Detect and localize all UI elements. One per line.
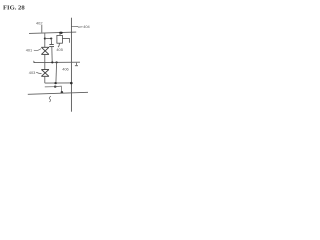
leader for label 401 [34,49,41,51]
resistor bottom lead [58,43,60,47]
protection element X2 (bidirectional diode) [41,70,49,77]
wire W1b to capacitor branch [45,38,51,40]
wire W3 short faint [45,86,55,88]
wire: middle branch from W2m down [55,62,58,83]
leader for label 402 [41,25,43,33]
resistor R (box) [57,35,63,43]
wire: left chain vertical from W1 to X1 [44,33,46,47]
wire W4 bottom horizontal crossing bus [28,92,88,94]
wire W2m middle horizontal [33,61,80,63]
wire W2 lower horizontal to bus [45,82,72,84]
squiggle leader below W4 [49,96,51,102]
bus vertical line right [70,18,72,112]
svg-text:406: 406 [62,67,68,72]
capacitor C bottom lead [51,47,53,63]
node dot F (55.2,86.6) [54,86,57,88]
svg-text:402: 402 [36,20,43,25]
wire: step jog to bottom wire [55,86,61,92]
node dot on W1 (resistor tap) [59,32,63,34]
node dot H at bus (71.3,83.1) [70,82,73,84]
wire: X1 to X2 vertical [44,54,46,69]
node dot A (44.9,38.5) [44,37,46,39]
tick at W2m left end [33,61,35,63]
resistor top lead [59,33,62,35]
node dot E (55.6,83.1) [54,82,57,84]
svg-text:FIG. 28: FIG. 28 [3,4,25,11]
wire W1 top horizontal line [29,32,76,33]
svg-text:405: 405 [56,47,63,52]
node dot G (61.9,92.2) [61,91,64,93]
leader for label 404 (bus label) [71,26,82,29]
svg-text:404: 404 [83,24,90,29]
leader for label 403 [36,72,41,73]
protection element X1 (bidirectional diode) [41,47,49,54]
capacitor C plates [49,44,53,46]
gate jog wire from box to near bus [62,38,69,42]
svg-text:401: 401 [26,48,33,53]
capacitor C top lead [50,39,52,45]
node dot B (51.2,38.5) [50,37,52,39]
wire: X2 bottom lead [44,76,46,83]
node dot C (52.3,62.4) [51,61,53,63]
svg-text:403: 403 [29,70,36,75]
node dot D (56.6,62.4) [55,61,57,63]
ground mark right of bus [75,63,77,65]
